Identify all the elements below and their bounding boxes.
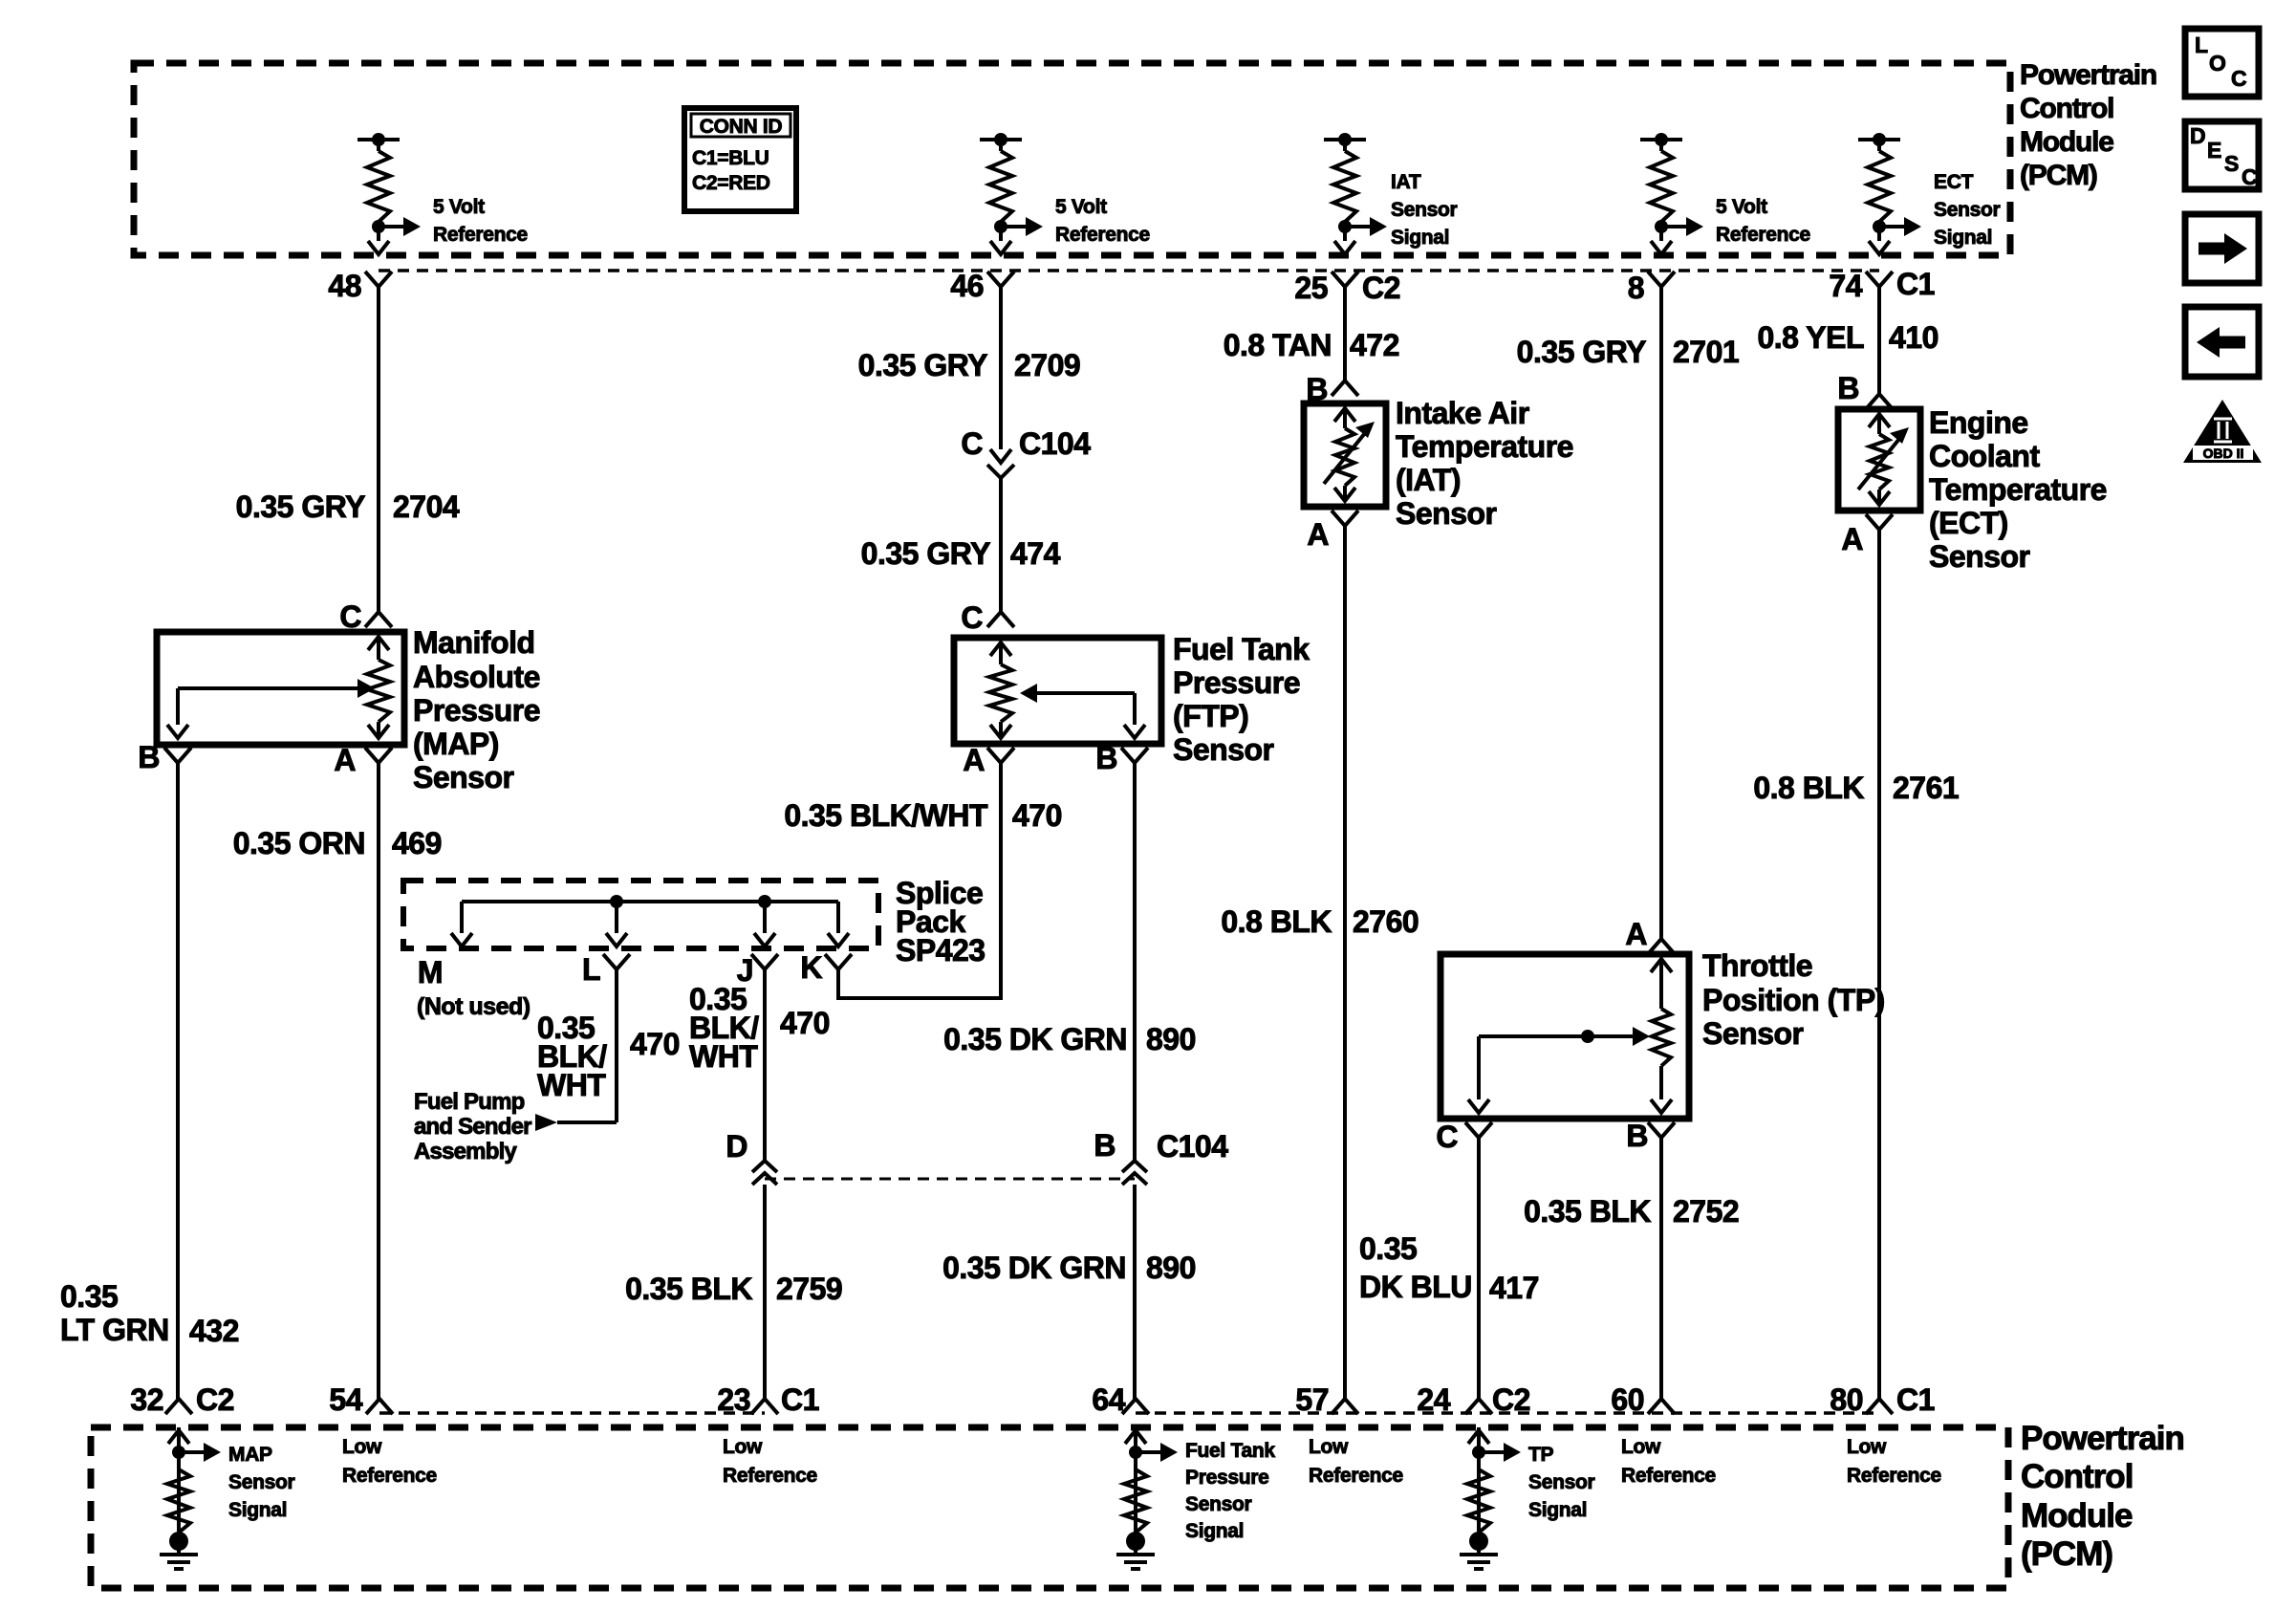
label 0.8 BLK 2760: [1221, 904, 1419, 939]
splice drop L: [606, 902, 627, 946]
label 0.35 ORN 469: [233, 826, 442, 860]
pin B (MAP): [138, 740, 191, 774]
PCM connector face dashed line (top): [379, 269, 1879, 272]
svg-text:Powertrain: Powertrain: [2020, 59, 2156, 91]
resistor R3 IAT sensor signal pull-up (PCM pin 25): [1324, 133, 1387, 254]
icon right-arrow box: [2185, 214, 2259, 283]
pin B (TP): [1626, 1119, 1675, 1153]
svg-text:K: K: [800, 950, 822, 985]
svg-text:Signal: Signal: [1185, 1520, 1244, 1542]
label ECT Sensor Signal: [1934, 171, 2001, 249]
TP sensor box: [1440, 954, 1689, 1119]
label Low Reference (pin 60): [1621, 1436, 1716, 1487]
svg-text:0.35: 0.35: [60, 1279, 118, 1314]
label IAT Sensor Signal: [1391, 171, 1458, 249]
connector C104 pin D (inline): [726, 1129, 777, 1185]
svg-text:0.35 GRY: 0.35 GRY: [1517, 335, 1646, 369]
svg-text:54: 54: [329, 1382, 362, 1417]
svg-text:Manifold: Manifold: [413, 625, 535, 660]
svg-text:(MAP): (MAP): [413, 727, 499, 761]
IAT sensor box: [1304, 403, 1386, 507]
svg-text:O: O: [2209, 51, 2226, 76]
svg-text:46: 46: [950, 269, 984, 303]
label 5 Volt Reference (pin 48): [433, 196, 528, 246]
wire 417 (TP C to pin 24): [1477, 1138, 1481, 1399]
svg-text:0.35 BLK: 0.35 BLK: [625, 1272, 752, 1306]
svg-text:L: L: [582, 952, 600, 987]
thermistor in IAT sensor: [1324, 408, 1375, 501]
label Engine Coolant Temperature (ECT) Sensor: [1929, 405, 2107, 574]
svg-text:C: C: [2242, 164, 2258, 189]
label 0.8 YEL 410: [1757, 320, 1938, 355]
pin A (ECT): [1841, 514, 1893, 556]
pin 32 connector C2: [130, 1382, 234, 1417]
off-page arrow to fuel pump: [535, 1114, 557, 1131]
wire 432 (MAP B to pin 32): [176, 763, 180, 1399]
label Low Reference (pin 80): [1847, 1436, 1941, 1487]
icon DESC box: [2185, 121, 2259, 189]
svg-text:5 Volt: 5 Volt: [1055, 196, 1107, 218]
svg-text:0.35 GRY: 0.35 GRY: [861, 536, 990, 571]
svg-text:A: A: [1307, 517, 1329, 552]
svg-text:Module: Module: [2021, 1497, 2133, 1534]
ground (MAP signal): [0, 0, 1, 1]
svg-text:0.35 ORN: 0.35 ORN: [233, 826, 365, 860]
svg-text:C2: C2: [1492, 1382, 1530, 1417]
svg-text:0.8 YEL: 0.8 YEL: [1757, 320, 1864, 355]
svg-text:C: C: [1436, 1120, 1458, 1154]
potentiometer in MAP sensor: [367, 637, 390, 738]
wire 472 (pin 25 to IAT B): [1343, 287, 1347, 381]
svg-text:Assembly: Assembly: [414, 1139, 517, 1164]
pin 64 connector: [1092, 1382, 1149, 1417]
pin 54 connector: [329, 1382, 393, 1417]
svg-text:Control: Control: [2020, 93, 2113, 124]
PCM connector face dashed line (bottom left): [379, 1411, 765, 1415]
resistor R8 TP sensor signal input (pin 24): [1460, 1427, 1521, 1569]
svg-text:Position (TP): Position (TP): [1702, 983, 1885, 1017]
svg-text:WHT: WHT: [689, 1039, 758, 1074]
svg-text:(PCM): (PCM): [2020, 160, 2097, 191]
label 0.35 GRY 2709: [858, 348, 1081, 382]
svg-text:IAT: IAT: [1391, 171, 1421, 193]
label 0.35 GRY 2701: [1517, 335, 1740, 369]
label 0.35 BLK 2752: [1524, 1194, 1739, 1229]
ECT sensor box: [1838, 409, 1920, 511]
svg-text:Fuel Tank: Fuel Tank: [1185, 1440, 1275, 1462]
svg-text:MAP: MAP: [228, 1444, 272, 1466]
svg-text:57: 57: [1295, 1382, 1329, 1417]
label 0.35 LT GRN 432: [60, 1279, 239, 1348]
svg-text:Fuel Tank: Fuel Tank: [1173, 632, 1310, 666]
svg-text:D: D: [2190, 123, 2206, 148]
svg-text:0.8 BLK: 0.8 BLK: [1221, 904, 1332, 939]
svg-text:C: C: [961, 426, 983, 461]
wire 410 (pin 74 to ECT B): [1877, 287, 1881, 394]
pin 8 connector: [1628, 271, 1675, 305]
svg-text:A: A: [963, 743, 985, 777]
PCM module box (bottom): [91, 1427, 2008, 1588]
svg-text:24: 24: [1417, 1382, 1450, 1417]
label 5 Volt Reference (pin 46): [1055, 196, 1150, 246]
svg-text:64: 64: [1092, 1382, 1125, 1417]
node B (ECT): [1837, 371, 1893, 409]
resistor R6 MAP sensor signal input (pin 32): [160, 1427, 221, 1569]
svg-text:Low: Low: [1309, 1436, 1349, 1458]
svg-text:Reference: Reference: [1621, 1465, 1716, 1487]
wire 2709 (pin 46 to C104): [999, 287, 1003, 449]
svg-text:Fuel Pump: Fuel Pump: [414, 1089, 525, 1115]
svg-text:Pressure: Pressure: [1173, 665, 1300, 700]
label Powertrain Control Module (PCM) top right: [2020, 59, 2156, 191]
svg-text:Reference: Reference: [1055, 224, 1150, 246]
pin 25 connector C2: [1294, 271, 1400, 305]
label Splice Pack SP423: [896, 876, 986, 968]
svg-text:48: 48: [328, 269, 361, 303]
wire 2760 (IAT A to pin 57): [1343, 526, 1347, 1399]
svg-text:Reference: Reference: [723, 1465, 817, 1487]
svg-text:C2: C2: [1362, 271, 1400, 305]
label 0.35 BLK/WHT 470: [784, 798, 1062, 833]
connector C104 pin C (inline): [961, 426, 1091, 478]
wire 470 (FTP A to splice K): [838, 763, 1001, 998]
pin 24 connector C2: [1417, 1382, 1530, 1417]
svg-text:Low: Low: [1621, 1436, 1661, 1458]
svg-text:M: M: [418, 955, 443, 990]
label 0.35 GRY 2704: [236, 490, 460, 524]
svg-text:C104: C104: [1019, 426, 1091, 461]
connector C104 dashed line: [765, 1178, 1135, 1181]
label 5 Volt Reference (pin 8): [1716, 196, 1810, 246]
svg-text:and Sender: and Sender: [414, 1114, 531, 1140]
MAP wiper arm: [167, 679, 375, 738]
svg-text:Pressure: Pressure: [413, 693, 540, 728]
pin 46 connector: [950, 269, 1014, 303]
pin 48 connector: [328, 269, 392, 303]
splice drop K: [828, 902, 849, 946]
svg-text:Sensor: Sensor: [1929, 539, 2030, 574]
svg-text:2759: 2759: [776, 1272, 842, 1306]
icon OBD II triangle: [2183, 400, 2262, 463]
node C (FTP sensor): [961, 600, 1014, 635]
pin K (splice): [800, 950, 852, 985]
svg-text:Sensor: Sensor: [1185, 1493, 1252, 1515]
svg-text:A: A: [334, 743, 356, 777]
svg-text:2752: 2752: [1673, 1194, 1739, 1229]
svg-text:Low: Low: [723, 1436, 763, 1458]
pin J (splice): [737, 953, 778, 988]
svg-text:C2=RED: C2=RED: [692, 172, 770, 194]
svg-text:32: 32: [130, 1382, 163, 1417]
svg-text:74: 74: [1829, 269, 1862, 303]
label Fuel Tank Pressure Sensor Signal: [1185, 1440, 1275, 1542]
svg-text:890: 890: [1146, 1022, 1196, 1056]
label Powertrain Control Module (PCM) bottom right: [2021, 1420, 2184, 1573]
junction dot (splice L): [610, 895, 623, 908]
splice pack SP423 box: [403, 881, 878, 948]
svg-text:890: 890: [1146, 1251, 1196, 1285]
svg-text:Pressure: Pressure: [1185, 1467, 1269, 1489]
svg-text:Reference: Reference: [1847, 1465, 1941, 1487]
svg-text:A: A: [1625, 917, 1647, 951]
splice drop J: [754, 902, 775, 946]
svg-text:ECT: ECT: [1934, 171, 1974, 193]
svg-text:C1: C1: [1896, 267, 1935, 301]
potentiometer in TP sensor: [1651, 959, 1672, 1113]
icon LOC box: [2185, 29, 2259, 97]
svg-text:C2: C2: [196, 1382, 234, 1417]
pin 80 connector C1: [1830, 1382, 1935, 1417]
svg-text:TP: TP: [1528, 1444, 1554, 1466]
label 0.8 TAN 472: [1224, 328, 1399, 362]
svg-text:Sensor: Sensor: [1396, 496, 1497, 531]
svg-text:(ECT): (ECT): [1929, 506, 2008, 540]
svg-text:2709: 2709: [1014, 348, 1080, 382]
resistor R1 5V reference pull-up (PCM pin 48): [357, 133, 421, 254]
svg-text:Reference: Reference: [433, 224, 528, 246]
wire 2761 (ECT A to pin 80): [1877, 530, 1881, 1399]
FTP sensor box: [954, 638, 1161, 744]
wire 470 (splice J down): [763, 969, 767, 1161]
svg-text:Reference: Reference: [1716, 224, 1810, 246]
svg-text:0.35 DK GRN: 0.35 DK GRN: [942, 1251, 1126, 1285]
svg-text:(IAT): (IAT): [1396, 463, 1461, 497]
svg-text:Low: Low: [342, 1436, 382, 1458]
svg-text:8: 8: [1628, 271, 1644, 305]
svg-text:Throttle: Throttle: [1702, 948, 1812, 983]
label 0.35 BLK/WHT (L wire): [537, 1011, 680, 1102]
svg-text:2704: 2704: [393, 490, 460, 524]
svg-text:2760: 2760: [1353, 904, 1419, 939]
MAP sensor box: [157, 632, 404, 745]
svg-text:Sensor: Sensor: [1702, 1016, 1804, 1051]
svg-text:469: 469: [392, 826, 442, 860]
svg-text:2761: 2761: [1893, 771, 1959, 805]
svg-text:E: E: [2207, 138, 2221, 163]
pin A (FTP): [963, 743, 1014, 777]
label 0.35 BLK/WHT (J wire): [689, 982, 830, 1074]
pin 60 connector: [1611, 1382, 1675, 1417]
wire 470 (splice L to fuel pump): [557, 969, 617, 1122]
label 0.35 DK GRN 890 (lower): [942, 1251, 1196, 1285]
svg-text:(FTP): (FTP): [1173, 699, 1248, 733]
label Throttle Position (TP) Sensor: [1702, 948, 1885, 1051]
svg-text:LT GRN: LT GRN: [60, 1313, 169, 1347]
svg-text:(Not used): (Not used): [417, 993, 531, 1020]
svg-text:B: B: [138, 740, 160, 774]
svg-text:L: L: [2195, 33, 2208, 57]
svg-text:Signal: Signal: [1934, 227, 1992, 249]
svg-text:(PCM): (PCM): [2021, 1535, 2112, 1573]
svg-text:470: 470: [630, 1027, 680, 1061]
wire 890 (C104 B to pin 64): [1133, 1185, 1137, 1399]
connector C104 pin B (inline): [1094, 1128, 1228, 1185]
icon left-arrow box: [2185, 307, 2259, 377]
svg-text:Intake Air: Intake Air: [1396, 396, 1529, 430]
pin C (TP): [1436, 1120, 1492, 1154]
label 0.35 DK BLU 417: [1359, 1231, 1539, 1305]
svg-text:0.8 TAN: 0.8 TAN: [1224, 328, 1332, 362]
label MAP Sensor Signal: [228, 1444, 295, 1521]
PCM connector face dashed line (bottom right): [1136, 1411, 1879, 1415]
svg-text:417: 417: [1489, 1271, 1539, 1305]
label Low Reference (pin 57): [1309, 1436, 1403, 1487]
label 0.35 DK GRN 890 (upper): [943, 1022, 1196, 1056]
svg-text:Module: Module: [2020, 126, 2113, 158]
svg-text:Signal: Signal: [1391, 227, 1449, 249]
svg-text:Absolute: Absolute: [413, 660, 540, 694]
CONN ID legend box: [684, 108, 796, 211]
svg-text:0.35 GRY: 0.35 GRY: [236, 490, 365, 524]
label 0.35 BLK 2759: [625, 1272, 842, 1306]
node B (IAT): [1306, 372, 1358, 406]
pin 57 connector: [1295, 1382, 1358, 1417]
pin M (splice, not used): [417, 955, 531, 1020]
svg-text:Control: Control: [2021, 1458, 2133, 1495]
svg-text:Low: Low: [1847, 1436, 1887, 1458]
svg-text:C104: C104: [1157, 1129, 1228, 1164]
pin B (FTP): [1095, 741, 1148, 775]
svg-text:Temperature: Temperature: [1396, 429, 1573, 464]
splice bus wire: [462, 900, 838, 903]
junction dot (splice J): [758, 895, 771, 908]
svg-text:Coolant: Coolant: [1929, 439, 2040, 473]
svg-text:Signal: Signal: [1528, 1499, 1587, 1521]
svg-text:472: 472: [1350, 328, 1399, 362]
svg-text:Sensor: Sensor: [1391, 199, 1458, 221]
wire 2759 (C104 D to pin 23): [763, 1185, 767, 1399]
svg-text:25: 25: [1294, 271, 1328, 305]
resistor R2 5V reference pull-up (PCM pin 46): [980, 133, 1043, 254]
svg-text:0.35: 0.35: [1359, 1231, 1417, 1266]
svg-text:Sensor: Sensor: [1528, 1471, 1595, 1493]
PCM module box (top): [134, 63, 2010, 255]
splice drop M: [451, 902, 472, 946]
label TP Sensor Signal: [1528, 1444, 1595, 1521]
svg-text:470: 470: [1012, 798, 1062, 833]
label 0.35 GRY 474: [861, 536, 1061, 571]
pin A (IAT): [1307, 511, 1358, 552]
svg-text:Sensor: Sensor: [228, 1471, 295, 1493]
svg-text:470: 470: [780, 1006, 830, 1040]
pin L (splice): [582, 952, 630, 987]
svg-text:C1: C1: [781, 1382, 819, 1417]
wire 2704 (pin 48 to MAP C): [377, 287, 380, 612]
svg-text:Sensor: Sensor: [1173, 732, 1274, 767]
svg-text:0.35 BLK/WHT: 0.35 BLK/WHT: [784, 798, 988, 833]
pin 23 connector C1: [717, 1382, 819, 1417]
svg-text:0.35 GRY: 0.35 GRY: [858, 348, 987, 382]
pin A (MAP): [334, 743, 392, 777]
svg-text:D: D: [726, 1129, 747, 1164]
potentiometer in FTP sensor: [989, 642, 1012, 738]
TP wiper arm: [1468, 1027, 1650, 1113]
svg-text:DK BLU: DK BLU: [1359, 1270, 1472, 1304]
thermistor in ECT sensor: [1858, 414, 1909, 505]
svg-text:C: C: [961, 600, 983, 635]
label Fuel Tank Pressure (FTP) Sensor: [1173, 632, 1310, 767]
svg-text:S: S: [2224, 151, 2239, 176]
svg-text:410: 410: [1889, 320, 1939, 355]
svg-text:0.35 BLK: 0.35 BLK: [1524, 1194, 1651, 1229]
svg-text:5 Volt: 5 Volt: [1716, 196, 1767, 218]
svg-text:C: C: [2231, 66, 2247, 91]
svg-text:Sensor: Sensor: [413, 760, 514, 794]
FTP wiper arm: [1020, 684, 1145, 738]
svg-text:SP423: SP423: [896, 933, 986, 968]
svg-text:5 Volt: 5 Volt: [433, 196, 485, 218]
svg-text:Sensor: Sensor: [1934, 199, 2001, 221]
svg-text:B: B: [1095, 741, 1117, 775]
wire 2701 (pin 8 to TP A): [1659, 287, 1663, 939]
svg-text:23: 23: [717, 1382, 750, 1417]
label Manifold Absolute Pressure (MAP) Sensor: [413, 625, 540, 794]
svg-text:CONN ID: CONN ID: [700, 116, 783, 138]
node A (TP sensor): [1625, 917, 1675, 954]
pin 74 connector C1: [1829, 267, 1935, 303]
svg-text:432: 432: [189, 1314, 239, 1348]
label Low Reference (pin 54): [342, 1436, 437, 1487]
wire 2752 (TP B to pin 60): [1659, 1138, 1663, 1399]
label 0.8 BLK 2761: [1753, 771, 1959, 805]
svg-text:2701: 2701: [1673, 335, 1739, 369]
svg-text:474: 474: [1010, 536, 1061, 571]
svg-text:C1: C1: [1896, 1382, 1935, 1417]
svg-text:Signal: Signal: [228, 1499, 287, 1521]
svg-text:OBD II: OBD II: [2203, 446, 2244, 461]
resistor R4 5V reference pull-up (PCM pin 8): [1640, 133, 1703, 254]
svg-text:80: 80: [1830, 1382, 1863, 1417]
label Intake Air Temperature (IAT) Sensor: [1396, 396, 1573, 531]
svg-text:Temperature: Temperature: [1929, 472, 2107, 507]
resistor R5 ECT sensor signal pull-up (PCM pin 74): [1858, 133, 1921, 254]
node C (MAP sensor): [339, 599, 392, 634]
svg-text:Engine: Engine: [1929, 405, 2028, 440]
svg-text:Powertrain: Powertrain: [2021, 1420, 2184, 1457]
wire 469 (MAP A to pin 54): [377, 763, 380, 1399]
svg-text:Reference: Reference: [1309, 1465, 1403, 1487]
wire 474 (C104 to FTP C): [999, 478, 1003, 612]
svg-text:B: B: [1094, 1128, 1116, 1163]
svg-text:Reference: Reference: [342, 1465, 437, 1487]
svg-text:B: B: [1626, 1119, 1648, 1153]
wire 890 (FTP B to C104 B): [1133, 763, 1137, 1161]
svg-text:A: A: [1841, 522, 1863, 556]
svg-text:60: 60: [1611, 1382, 1644, 1417]
label Fuel Pump and Sender Assembly: [414, 1089, 531, 1164]
label Low Reference (pin 23): [723, 1436, 817, 1487]
svg-text:0.8 BLK: 0.8 BLK: [1753, 771, 1864, 805]
svg-text:B: B: [1837, 371, 1859, 405]
svg-text:0.35 DK GRN: 0.35 DK GRN: [943, 1022, 1127, 1056]
svg-text:C1=BLU: C1=BLU: [692, 147, 769, 169]
svg-text:WHT: WHT: [537, 1068, 606, 1102]
resistor R7 FTP sensor signal input (pin 64): [1116, 1427, 1178, 1569]
